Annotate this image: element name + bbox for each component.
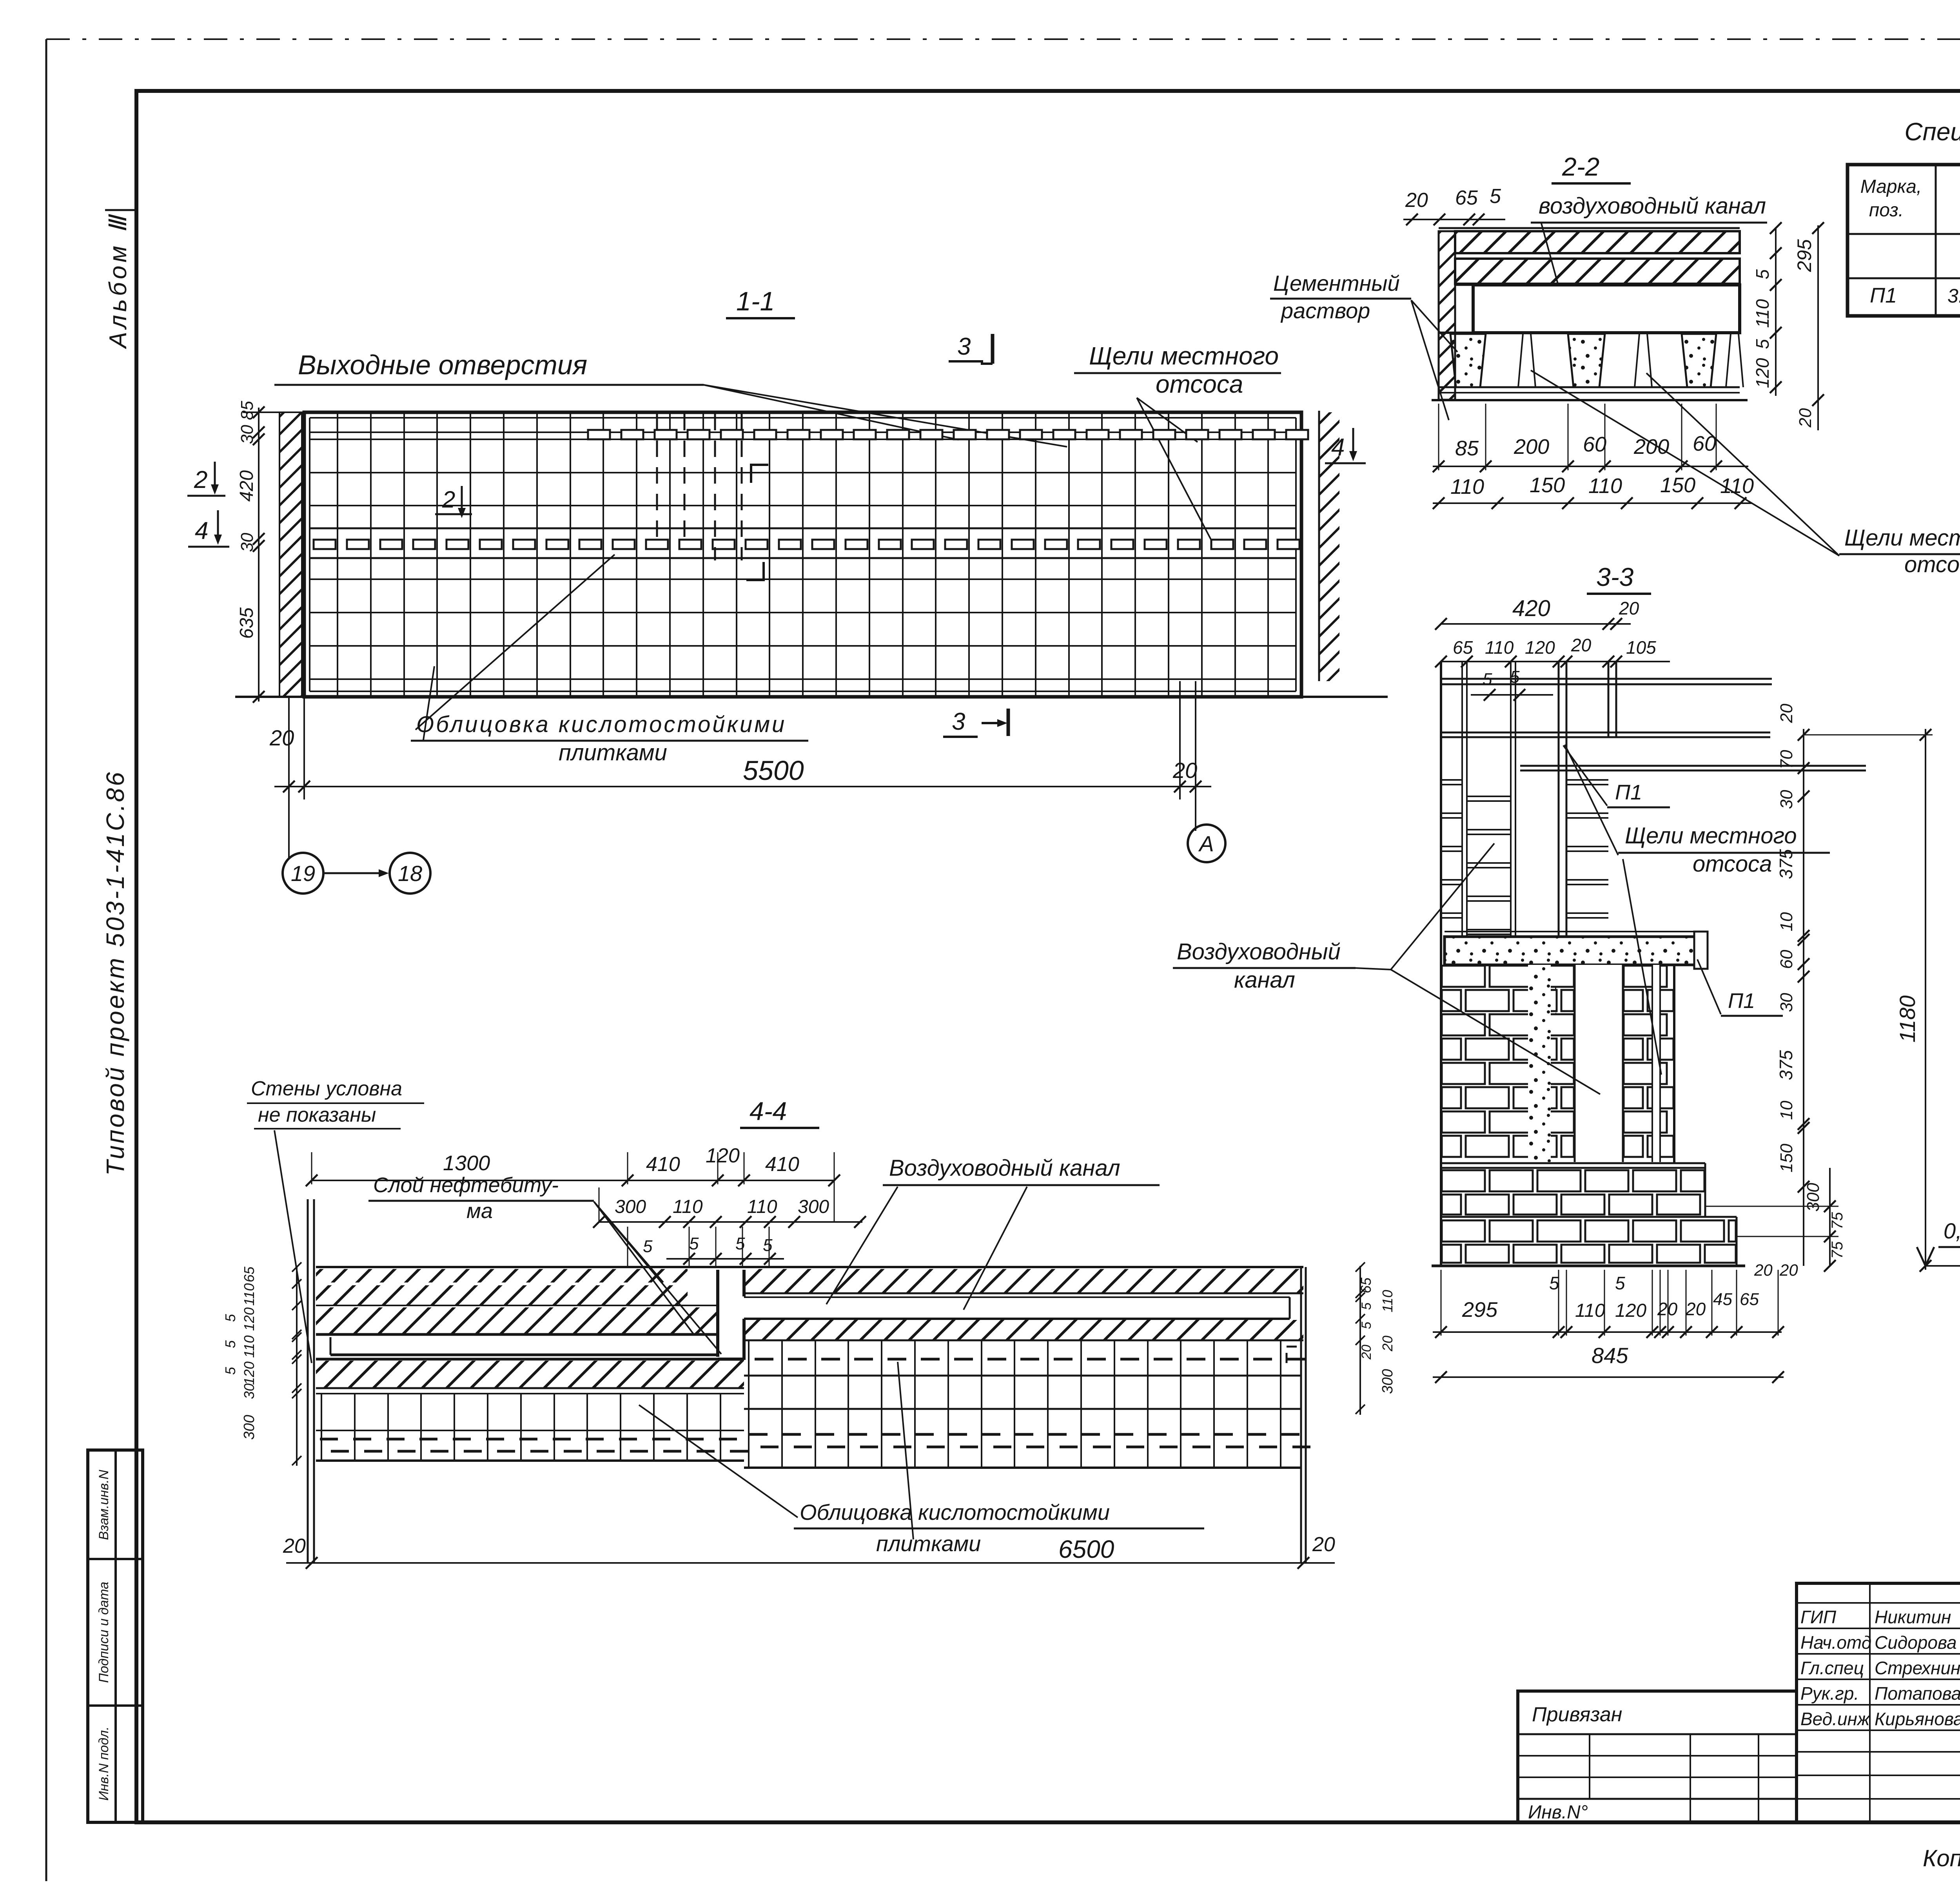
4-4 right tile dash row 1 (755, 1358, 773, 1361)
3-3 gap line pair (10) (1441, 1162, 1705, 1164)
ground line under 1-1 (235, 696, 1388, 698)
svg-text:Марка,: Марка, (1860, 176, 1922, 197)
svg-text:Альбом Ⅲ: Альбом Ⅲ (105, 213, 132, 350)
svg-text:635: 635 (236, 607, 257, 639)
svg-text:300: 300 (798, 1196, 829, 1217)
2-2 base line (1432, 399, 1748, 401)
2-2 bottom dim row 2 (1433, 502, 1752, 504)
svg-text:Кирьянова: Кирьянова (1875, 1709, 1960, 1729)
svg-text:4: 4 (195, 517, 208, 544)
outlet slot band 1 (dashes) (588, 430, 610, 439)
svg-text:Гл.спец: Гл.спец (1800, 1658, 1864, 1678)
4-4 bitumen joint band left (316, 1333, 718, 1336)
svg-text:105: 105 (1626, 637, 1656, 658)
svg-text:20: 20 (269, 725, 294, 750)
bottom dimension 5500 (288, 697, 290, 858)
3-3 overall dim 1180 (1925, 729, 1926, 1270)
4-4 left hatch layer A (316, 1269, 688, 1305)
tile grid vertical lines (337, 412, 338, 697)
svg-text:295: 295 (1462, 1298, 1498, 1322)
svg-text:20: 20 (1685, 1299, 1706, 1319)
3-3 upper slab lines (1441, 678, 1772, 680)
rack plan outer rectangle (304, 412, 1301, 697)
svg-text:Стены условна: Стены условна (251, 1077, 402, 1100)
3-3 lower air channel (1575, 965, 1623, 1162)
4-4 right hatch layer top (744, 1269, 1303, 1293)
svg-text:420: 420 (236, 470, 257, 502)
svg-text:20: 20 (1777, 703, 1796, 723)
svg-text:плитками: плитками (876, 1531, 981, 1556)
svg-text:Щели местного: Щели местного (1844, 525, 1960, 551)
svg-text:Взам.инв.N: Взам.инв.N (96, 1470, 111, 1540)
3-3 lower slot lines (1652, 965, 1660, 1162)
svg-text:65: 65 (1453, 637, 1473, 658)
2-2 mortar teeth row (1439, 332, 1740, 334)
4-4 right wall edge (1300, 1267, 1302, 1563)
svg-text:30: 30 (241, 1383, 257, 1399)
2-2 hatched band 1 (1455, 231, 1740, 253)
svg-text:Копировал: Копировал (1923, 1845, 1960, 1871)
svg-text:Сидорова: Сидорова (1875, 1632, 1957, 1653)
4-4 left tile dashes (320, 1438, 338, 1441)
svg-text:300: 300 (241, 1415, 258, 1439)
svg-text:65: 65 (1358, 1277, 1374, 1293)
svg-text:отсоса: отсоса (1693, 851, 1772, 877)
svg-text:5: 5 (1752, 339, 1773, 349)
4-4 right hatch layer under channel (744, 1320, 1303, 1340)
title block signature table (1797, 1583, 1960, 1822)
axis circle 18 (390, 853, 430, 894)
svg-text:5: 5 (222, 1367, 238, 1375)
svg-text:110: 110 (1752, 299, 1773, 328)
svg-text:3: 3 (957, 333, 971, 360)
svg-text:120: 120 (1615, 1300, 1646, 1321)
3-3 spread course 150 (1442, 1170, 1485, 1191)
svg-text:6500: 6500 (1058, 1535, 1114, 1563)
svg-text:не показаны: не показаны (258, 1104, 376, 1126)
svg-text:5: 5 (1490, 185, 1501, 208)
4-4 bottom dim 6500 (286, 1562, 1335, 1564)
paper edge top dash-dot line (46, 38, 1960, 40)
4-4 left dim column (296, 1266, 298, 1466)
svg-text:5: 5 (1549, 1273, 1559, 1293)
svg-text:Потапова: Потапова (1875, 1683, 1960, 1704)
4-4 left hatch layer B (316, 1307, 718, 1334)
svg-text:120: 120 (706, 1144, 740, 1167)
svg-text:2: 2 (442, 486, 455, 513)
2-2 teeth slot verticals (1518, 334, 1523, 387)
svg-text:30: 30 (1777, 790, 1796, 809)
4-4 right dim column (1359, 1266, 1361, 1415)
2-2 slab plate P1 (1473, 285, 1740, 333)
svg-text:Воздуховодный: Воздуховодный (1177, 939, 1341, 964)
svg-text:410: 410 (765, 1153, 799, 1176)
svg-text:20: 20 (1172, 758, 1197, 783)
svg-text:45: 45 (1713, 1290, 1732, 1309)
svg-text:60: 60 (1583, 433, 1606, 456)
2-2 right dim chain (1775, 227, 1777, 396)
3-3 upper wall verticals (1440, 662, 1442, 937)
3-3 bottom dim row 2 845 (1433, 1376, 1784, 1378)
svg-text:300: 300 (1379, 1369, 1396, 1394)
3-3 middle plate P1 with mortar dots (1445, 931, 1701, 932)
svg-text:375: 375 (1776, 1050, 1796, 1080)
leader lines to outlets (704, 385, 958, 440)
svg-text:отсоса: отсоса (1904, 552, 1960, 577)
svg-text:30: 30 (238, 533, 257, 552)
svg-text:3-3: 3-3 (1596, 562, 1634, 591)
svg-text:110: 110 (673, 1196, 703, 1217)
svg-text:65: 65 (1455, 187, 1478, 209)
svg-text:110: 110 (1450, 475, 1484, 499)
3-3 upper wall brick courses (1441, 779, 1462, 781)
svg-text:110: 110 (747, 1196, 777, 1217)
svg-text:20: 20 (1796, 408, 1815, 428)
svg-text:75: 75 (1829, 1212, 1846, 1229)
svg-text:воздуховодный канал: воздуховодный канал (1539, 193, 1766, 219)
svg-text:1180: 1180 (1895, 995, 1920, 1042)
svg-text:120: 120 (1752, 358, 1773, 388)
svg-text:1300: 1300 (443, 1151, 490, 1175)
right wall hatch of 1-1 (1318, 411, 1320, 681)
svg-text:20: 20 (1312, 1533, 1335, 1556)
svg-text:Привязан: Привязан (1532, 1703, 1622, 1726)
svg-text:110: 110 (1575, 1300, 1605, 1321)
svg-text:4-4: 4-4 (750, 1097, 787, 1126)
4-4 top dim row 1 (312, 1180, 835, 1181)
svg-text:5: 5 (222, 1314, 238, 1322)
svg-text:20: 20 (1571, 635, 1592, 655)
4-4 dim extension lines (627, 1227, 628, 1268)
svg-text:ГИП: ГИП (1800, 1607, 1837, 1627)
leaders to slots (1137, 398, 1198, 442)
svg-text:300: 300 (1804, 1183, 1823, 1212)
svg-text:20: 20 (1379, 1336, 1396, 1352)
svg-text:Спецификация сборных железобет: Спецификация сборных железобетонных плит (1904, 118, 1960, 146)
svg-text:плитками: плитками (559, 740, 667, 765)
paper edge left line (45, 39, 47, 1881)
svg-text:5: 5 (1359, 1322, 1374, 1329)
svg-text:Нач.отд: Нач.отд (1800, 1632, 1871, 1653)
3-3 right dim chain inner (1803, 729, 1804, 1266)
svg-text:20: 20 (1657, 1299, 1678, 1319)
svg-text:5: 5 (735, 1234, 745, 1253)
svg-text:П1: П1 (1870, 284, 1897, 307)
3-3 lower wall outline (1440, 937, 1442, 1266)
svg-text:200: 200 (1633, 435, 1669, 459)
svg-text:120: 120 (1525, 637, 1555, 658)
svg-text:0,000: 0,000 (1944, 1218, 1960, 1243)
svg-text:20: 20 (1754, 1261, 1773, 1279)
svg-text:295: 295 (1793, 239, 1815, 272)
svg-text:60: 60 (1777, 950, 1796, 969)
svg-text:А: А (1198, 831, 1214, 856)
4-4 left wall edge (307, 1199, 309, 1563)
svg-text:20: 20 (283, 1535, 306, 1557)
svg-text:5: 5 (1752, 269, 1773, 279)
left side stamp table (88, 1450, 143, 1822)
svg-text:раствор: раствор (1280, 298, 1370, 323)
svg-text:отсоса: отсоса (1156, 370, 1243, 398)
svg-text:поз.: поз. (1869, 200, 1904, 221)
spec table grid (1847, 165, 1960, 316)
left dimension chain of 1-1 (258, 408, 260, 702)
svg-text:70: 70 (1777, 750, 1796, 769)
svg-text:5: 5 (222, 1340, 238, 1348)
svg-text:3.006.1-2/82 Вып. 1-2: 3.006.1-2/82 Вып. 1-2 (1947, 285, 1960, 307)
svg-text:75: 75 (1829, 1241, 1846, 1259)
svg-text:Типовой проект 503-1-41С.86: Типовой проект 503-1-41С.86 (101, 770, 129, 1176)
3-3 steps right (1704, 1163, 1706, 1217)
3-3 lower wall bricks left (1442, 966, 1485, 987)
svg-text:Цементный: Цементный (1273, 271, 1400, 295)
svg-text:20: 20 (1779, 1261, 1798, 1279)
2-2 bottom dim row 1 (1433, 466, 1748, 467)
svg-text:65: 65 (241, 1266, 257, 1282)
svg-text:Вед.инж: Вед.инж (1800, 1709, 1871, 1729)
svg-text:110: 110 (1588, 474, 1622, 498)
dashed section cut lines in plan (656, 414, 658, 539)
svg-text:3: 3 (952, 708, 965, 735)
2-2 left wall strip (1439, 231, 1455, 400)
2-2 hatched band 2 (1455, 259, 1740, 284)
svg-text:1-1: 1-1 (736, 286, 775, 316)
svg-text:300: 300 (615, 1196, 646, 1217)
svg-text:Подписи и дата: Подписи и дата (96, 1582, 111, 1683)
suction slot band 2 (dashes) (314, 540, 336, 549)
3-3 mortar dotted column (1525, 965, 1556, 1162)
svg-text:150: 150 (1777, 1144, 1796, 1173)
svg-text:10: 10 (1777, 1100, 1796, 1120)
svg-text:Облицовка кислотостойкими: Облицовка кислотостойкими (416, 712, 786, 737)
svg-text:845: 845 (1592, 1343, 1628, 1368)
svg-text:20: 20 (1619, 598, 1639, 618)
svg-text:Облицовка кислотостойкими: Облицовка кислотостойкими (800, 1500, 1110, 1525)
4-4 top dim row 2 (599, 1221, 862, 1223)
svg-text:20: 20 (1405, 189, 1428, 212)
svg-text:Щели местного: Щели местного (1625, 823, 1797, 848)
svg-text:П1: П1 (1615, 781, 1642, 804)
svg-text:Инв.N подл.: Инв.N подл. (96, 1726, 111, 1800)
4-4 left tile band (316, 1393, 744, 1394)
svg-text:150: 150 (1530, 473, 1565, 497)
svg-text:5: 5 (643, 1237, 653, 1256)
4-4 right tile dashes bottom (750, 1433, 768, 1436)
3-3 bottom courses 300 (1442, 1220, 1485, 1242)
svg-text:Инв.N°: Инв.N° (1528, 1802, 1588, 1823)
svg-text:110: 110 (241, 1335, 257, 1358)
svg-text:ма: ма (466, 1199, 493, 1223)
3-3 mortar joint strip over bricks (1528, 965, 1551, 1162)
svg-text:Воздуховодный канал: Воздуховодный канал (889, 1155, 1120, 1181)
corner marks of detail (751, 465, 768, 483)
svg-text:150: 150 (1660, 473, 1695, 497)
svg-text:19: 19 (291, 861, 315, 886)
svg-text:120: 120 (241, 1307, 257, 1331)
3-3 lower wall bricks right (1624, 966, 1667, 987)
3-3 base line 0.000 (1432, 1265, 1745, 1267)
svg-text:Рук.гр.: Рук.гр. (1800, 1683, 1859, 1704)
arrow from 19 to 18 (325, 872, 382, 874)
svg-text:65: 65 (1740, 1290, 1759, 1309)
svg-text:85: 85 (1455, 437, 1479, 460)
4-4 top dim row 3 (5 5 5 5) (666, 1258, 784, 1260)
axis circle 19 (283, 853, 323, 894)
4-4 top surface line (316, 1266, 1303, 1268)
4-4 right tile band (748, 1340, 750, 1468)
svg-text:120: 120 (241, 1361, 257, 1385)
svg-text:5: 5 (1359, 1302, 1374, 1310)
4-4 air channel right (744, 1296, 1290, 1298)
svg-text:Выходные отверстия: Выходные отверстия (298, 350, 587, 380)
4-4 dashed corner mark (1287, 1347, 1298, 1363)
svg-text:375: 375 (1776, 849, 1796, 879)
privyazan extension table (1518, 1691, 1797, 1822)
left wall hatch of 1-1 (279, 412, 302, 697)
svg-text:420: 420 (1512, 596, 1550, 621)
svg-text:Никитин: Никитин (1875, 1607, 1951, 1627)
svg-text:30 85: 30 85 (238, 401, 257, 444)
svg-text:Слой нефтебиту-: Слой нефтебиту- (373, 1173, 559, 1197)
svg-text:10: 10 (1777, 912, 1796, 931)
svg-text:5500: 5500 (743, 755, 804, 786)
svg-text:канал: канал (1234, 967, 1295, 993)
svg-text:110: 110 (1379, 1290, 1396, 1312)
svg-text:5: 5 (689, 1234, 699, 1253)
svg-text:5: 5 (763, 1236, 773, 1255)
tile grid horizontal lines (310, 431, 1296, 433)
svg-text:20: 20 (1359, 1345, 1374, 1360)
svg-text:200: 200 (1514, 435, 1549, 459)
svg-text:2: 2 (194, 466, 207, 493)
svg-text:Щели местного: Щели местного (1089, 342, 1279, 370)
4-4 center joint channel (720, 1269, 742, 1357)
svg-text:5: 5 (1615, 1273, 1625, 1293)
svg-text:410: 410 (646, 1153, 680, 1176)
svg-text:П1: П1 (1728, 989, 1755, 1013)
svg-text:2-2: 2-2 (1562, 152, 1599, 181)
3-3 right dim chain 75 75 300 (1829, 1168, 1831, 1266)
svg-text:Стрехнин: Стрехнин (1875, 1658, 1960, 1678)
svg-text:30: 30 (1777, 993, 1796, 1012)
axis circle A (1188, 825, 1225, 862)
svg-text:110: 110 (241, 1283, 257, 1305)
svg-text:18: 18 (398, 861, 422, 886)
svg-text:110: 110 (1485, 637, 1514, 658)
3-3 bottom dim row 1 (1433, 1331, 1782, 1333)
4-4 left hatch layer C (316, 1358, 744, 1361)
